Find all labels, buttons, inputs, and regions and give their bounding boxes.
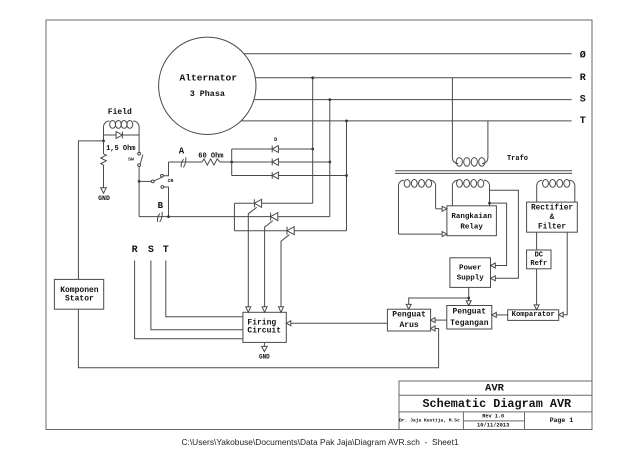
svg-text:&: & — [550, 214, 555, 222]
junction diode D3 output — [345, 174, 348, 177]
transformer secondary W3 loops — [543, 180, 549, 188]
arrow into penguat tegangan top — [466, 301, 471, 306]
svg-text:Dr. Jaja Kustija, M.Sc: Dr. Jaja Kustija, M.Sc — [399, 417, 460, 423]
svg-text:B: B — [158, 201, 164, 211]
block komponen stator — [54, 279, 103, 309]
arrow into rangkaian relay input 1 — [442, 206, 447, 211]
svg-text:Arus: Arus — [399, 321, 418, 330]
svg-text:Stator: Stator — [65, 294, 94, 303]
svg-text:Komparator: Komparator — [512, 311, 555, 319]
svg-text:D: D — [274, 137, 277, 143]
junction bracket node — [230, 161, 233, 164]
svg-text:GND: GND — [259, 354, 270, 361]
transformer T1 core — [395, 171, 572, 174]
junction diode D1 output — [311, 148, 314, 151]
arrow gate2 into firing circuit — [262, 307, 267, 313]
wire W2 upper branch to power supply — [490, 190, 519, 278]
wire rectifier right to komparator — [563, 232, 567, 315]
junction field left node — [102, 140, 105, 143]
switch SW — [138, 152, 141, 155]
title block outline — [399, 381, 592, 430]
wire phase 0 bus — [244, 53, 572, 55]
wire S to firing circuit — [151, 261, 243, 330]
svg-text:Page 1: Page 1 — [550, 417, 574, 424]
svg-text:CR: CR — [168, 178, 174, 184]
diode D1 — [232, 148, 273, 150]
wire CR top contact to node A — [163, 162, 168, 176]
svg-text:Penguat: Penguat — [392, 310, 426, 319]
svg-text:Rangkaian: Rangkaian — [451, 213, 492, 221]
svg-text:Field: Field — [108, 108, 132, 117]
node A mark — [181, 157, 186, 167]
wire B line to SCR2 — [139, 216, 271, 218]
junction power supply node — [467, 297, 470, 300]
junction CR common node — [138, 180, 141, 183]
arrow into power supply input 1 — [491, 263, 496, 268]
svg-text:T: T — [580, 116, 586, 127]
wire SCR cathode bracket — [233, 203, 235, 230]
transformer secondary W2 left leg — [452, 180, 458, 206]
svg-text:S: S — [580, 95, 586, 106]
node B mark — [157, 212, 162, 222]
arrow into penguat arus right upper — [431, 318, 436, 323]
wire field node to stator feedback — [78, 141, 103, 280]
wire R tap to rectifier leg — [312, 78, 314, 204]
svg-text:AVR: AVR — [485, 382, 505, 394]
alternator G1 circle — [159, 37, 256, 134]
svg-text:Supply: Supply — [457, 274, 485, 282]
wire power to penguat arus — [409, 298, 469, 304]
wire penguat arus to firing circuit — [291, 322, 388, 324]
svg-text:3 Phasa: 3 Phasa — [190, 89, 225, 99]
inductor field winding loops — [110, 121, 116, 129]
wire R to firing circuit — [135, 261, 243, 339]
transformer secondary W3 right leg — [569, 180, 575, 202]
arrow into firing circuit right — [286, 321, 291, 326]
arrow feedback into penguat arus — [431, 326, 436, 331]
svg-text:T: T — [163, 245, 169, 256]
wire resistor to diode bracket — [220, 161, 272, 163]
wire W2 lower branch to power supply — [490, 203, 507, 265]
wire field freewheel branch — [104, 134, 140, 136]
wire SCR1 gate — [248, 207, 256, 306]
thyristor SCR3 — [234, 230, 287, 232]
svg-text:A: A — [179, 146, 185, 156]
block penguat arus — [387, 309, 430, 331]
wire firing circuit ground — [263, 342, 265, 346]
junction W2 node — [488, 202, 491, 205]
inductor field winding right leg — [133, 121, 139, 153]
wire node to resistor — [103, 141, 105, 154]
arrow into rangkaian relay input 2 — [442, 232, 447, 237]
wire W1 to relay input 1 — [436, 208, 443, 210]
svg-text:Circuit: Circuit — [247, 327, 281, 336]
wire phase S bus — [254, 99, 572, 101]
wire rectifier to DC refr — [536, 232, 538, 250]
resistor 1,5 Ohm — [101, 154, 107, 165]
wire S tap to rectifier leg — [329, 100, 331, 217]
svg-text:Ø: Ø — [580, 50, 586, 62]
svg-text:R: R — [580, 73, 586, 84]
junction diode D2 output — [328, 161, 331, 164]
junction T bus tap — [345, 120, 348, 123]
svg-text:R: R — [132, 245, 138, 256]
arrow into komparator top — [534, 305, 539, 310]
transformer T1 primary left leg from R — [452, 78, 458, 164]
diode D2 — [272, 159, 278, 166]
svg-text:Rectifier: Rectifier — [531, 204, 573, 212]
svg-text:Alternator: Alternator — [180, 72, 238, 83]
svg-text:Filter: Filter — [538, 223, 566, 231]
svg-text:Penguat: Penguat — [452, 308, 486, 317]
junction B node — [167, 215, 170, 218]
block firing circuit U1 — [243, 312, 286, 342]
wire SCR3 gate — [281, 235, 289, 307]
svg-text:Relay: Relay — [460, 223, 483, 231]
inductor field winding left leg — [104, 121, 110, 141]
arrow into penguat arus top — [406, 304, 411, 309]
svg-text:10/11/2013: 10/11/2013 — [477, 422, 509, 428]
svg-text:Rev 1.0: Rev 1.0 — [482, 414, 504, 420]
thyristor SCR1 — [234, 202, 254, 204]
ground GND firing circuit — [262, 346, 268, 351]
svg-text:Refr: Refr — [530, 260, 547, 268]
transformer secondary W1 loops — [404, 180, 410, 188]
wire W1 to relay input 2 — [399, 233, 443, 235]
svg-text:Power: Power — [459, 265, 482, 273]
junction S bus tap — [328, 98, 331, 101]
svg-text:C:\Users\Yakobuse\Documents\Da: C:\Users\Yakobuse\Documents\Data Pak Jaj… — [181, 437, 458, 447]
wire T tap to rectifier leg — [346, 121, 348, 231]
junction R bus tap — [311, 76, 314, 79]
svg-text:Schematic Diagram AVR: Schematic Diagram AVR — [422, 397, 572, 411]
block rangkaian relay — [447, 206, 497, 236]
diode field freewheel — [116, 132, 122, 139]
arrow into komparator right — [559, 312, 564, 317]
arrow gate1 into firing circuit — [246, 307, 251, 313]
thyristor SCR2 — [271, 213, 278, 221]
svg-text:1,5 Ohm: 1,5 Ohm — [106, 145, 135, 153]
wire DC refr to komparator — [536, 269, 538, 305]
wire CR common down to B line — [138, 181, 140, 216]
transformer secondary W2 loops — [457, 180, 463, 188]
block power supply — [450, 258, 491, 288]
wire resistor to ground — [103, 165, 105, 188]
wire penguat tegangan to penguat arus — [435, 319, 447, 321]
wire phase R bus — [255, 77, 571, 79]
ground GND field — [101, 188, 107, 194]
wire common to CR pole — [139, 180, 151, 182]
arrow into power supply input 2 — [491, 276, 496, 281]
wire SCR2 gate — [265, 221, 273, 307]
switch CR changeover — [151, 180, 154, 183]
transformer secondary W2 right leg — [484, 180, 490, 206]
wire phase T bus — [241, 120, 571, 122]
transformer secondary W3 left leg — [537, 180, 543, 202]
block DC refr — [527, 250, 551, 269]
arrow into penguat tegangan right — [492, 312, 497, 317]
svg-text:Tegangan: Tegangan — [450, 319, 489, 328]
transformer T1 primary right leg from T — [482, 121, 488, 164]
wire SW to CR common — [138, 167, 140, 182]
arrow gate3 into firing circuit — [279, 307, 284, 313]
wire komparator to penguat tegangan — [496, 314, 507, 316]
svg-text:Trafo: Trafo — [507, 155, 528, 163]
diode D3 — [232, 175, 273, 177]
wire diode input bracket — [231, 149, 233, 176]
wire A line — [169, 161, 203, 163]
svg-text:S: S — [148, 245, 154, 256]
svg-text:DC: DC — [535, 251, 543, 259]
wire stator feedback bottom run — [78, 309, 438, 368]
svg-text:SW: SW — [128, 156, 134, 162]
block penguat tegangan — [447, 306, 492, 330]
border frame — [46, 20, 592, 430]
block komparator — [508, 310, 559, 321]
block rectifier and filter — [527, 202, 578, 232]
transformer secondary W1 left leg — [398, 180, 404, 234]
wire T to firing circuit — [166, 261, 243, 317]
wire CR bottom contact to node B — [164, 187, 169, 217]
transformer T1 primary loops — [456, 158, 462, 167]
resistor 60 Ohm — [202, 159, 220, 165]
wire power supply output — [468, 287, 470, 300]
svg-text:GND: GND — [98, 195, 110, 202]
transformer secondary W1 right leg — [430, 180, 436, 209]
